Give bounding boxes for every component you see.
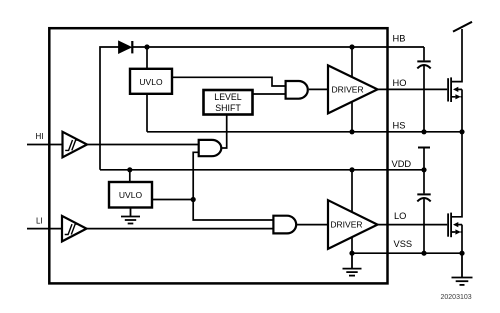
- buffer U2 Schmitt HI: [63, 132, 88, 158]
- LEVEL SHIFT block: [204, 90, 253, 115]
- node dot VDD/UVLO2: [127, 167, 132, 172]
- node dot switch node: [459, 129, 464, 134]
- node HB wire (internal rail, diode cathode to bootstrap cap): [133, 46, 424, 48]
- node dot VDD/cap: [421, 167, 426, 172]
- ground symbol under driver U6: [343, 253, 362, 275]
- wire HI buffer output: [87, 144, 199, 146]
- wire junction down to AND A3 input: [193, 200, 273, 221]
- VDD terminal bar: [418, 147, 430, 149]
- buffer U5 Schmitt LI: [62, 216, 87, 242]
- driver U6 (low side): [328, 200, 378, 249]
- wire UVLO2 top stub: [129, 170, 131, 182]
- wire driver bottom rail to VSS: [351, 237, 353, 253]
- transistor Q2 low-side MOSFET: [447, 132, 462, 253]
- wire AND A2 output to driver: [309, 88, 328, 90]
- svg-text:HB: HB: [393, 34, 406, 44]
- wire driver bottom rail to HS: [351, 102, 353, 132]
- IC boundary box: [49, 28, 387, 283]
- capacitor C2 bottom stub: [423, 198, 425, 253]
- node dot HB rail: [349, 44, 354, 49]
- node dot VDD rail: [349, 167, 354, 172]
- AND gate A3 (low side): [273, 216, 296, 234]
- wire UVLO2 output: [152, 199, 193, 201]
- node junction diode/UVLO/HB: [144, 44, 149, 49]
- transistor Q1 high-side MOSFET: [447, 29, 462, 132]
- wire VDD-to-diode left vertical: [100, 47, 119, 170]
- ground symbol under UVLO2: [121, 208, 140, 224]
- wire level shift output: [253, 93, 286, 95]
- wire UVLO1 output to AND gate: [172, 77, 286, 86]
- capacitor C1 bootstrap top stub: [423, 47, 425, 60]
- supply slash symbol: [453, 22, 472, 32]
- labels: [392, 34, 413, 250]
- AND gate A1 (input logic): [199, 140, 222, 156]
- wire UVLO1 top stub: [146, 47, 148, 69]
- capacitor C2 decoupling plates: [423, 170, 425, 194]
- node HO wire: [378, 88, 448, 90]
- svg-text:VDD: VDD: [392, 159, 412, 169]
- capacitor C1 bottom stub: [423, 65, 425, 132]
- svg-text:SHIFT: SHIFT: [215, 103, 241, 113]
- wire AND A3 output: [297, 224, 328, 226]
- node dot MOSFET source/VSS: [459, 251, 464, 256]
- svg-text:UVLO: UVLO: [119, 190, 143, 200]
- node dot VSS rail: [349, 251, 354, 256]
- wire driver top rail to VDD: [351, 170, 353, 212]
- node dot cap/HS: [421, 129, 426, 134]
- UVLO U4 (supply): [109, 182, 152, 208]
- svg-text:DRIVER: DRIVER: [332, 84, 364, 94]
- node LO wire: [378, 224, 448, 226]
- AND gate A2 (high side): [286, 81, 308, 99]
- svg-text:HS: HS: [393, 120, 406, 130]
- ground symbol bottom right: [452, 253, 473, 285]
- wire HI input: [27, 144, 63, 146]
- node HS wire: [147, 131, 462, 133]
- svg-text:UVLO: UVLO: [139, 77, 163, 87]
- svg-text:20203103: 20203103: [441, 294, 472, 301]
- node dot HS rail: [349, 129, 354, 134]
- svg-text:LO: LO: [394, 211, 406, 221]
- node dot cap/VSS: [421, 251, 426, 256]
- UVLO U1 (high side): [130, 69, 172, 94]
- wire UVLO1 bottom stub to HS: [146, 94, 148, 132]
- svg-text:HI: HI: [36, 132, 44, 141]
- svg-text:LI: LI: [36, 217, 43, 226]
- wire LI buffer output: [87, 228, 274, 230]
- wire LI input: [27, 228, 62, 230]
- wire AND A1 lower input from UVLO2: [193, 152, 199, 199]
- svg-text:DRIVER: DRIVER: [330, 219, 362, 229]
- node VDD wire: [100, 169, 424, 171]
- wire AND A1 output to level shift: [222, 115, 227, 148]
- svg-text:HO: HO: [393, 78, 407, 88]
- wire driver top rail to HB: [351, 47, 353, 77]
- capacitor C1 plates: [417, 60, 430, 62]
- svg-text:LEVEL: LEVEL: [214, 92, 241, 102]
- node dot UVLO2 output junction: [191, 197, 196, 202]
- svg-text:VSS: VSS: [394, 239, 413, 249]
- diode D1: [119, 41, 132, 53]
- driver U3 (high side): [328, 65, 378, 113]
- node VSS wire: [352, 252, 462, 254]
